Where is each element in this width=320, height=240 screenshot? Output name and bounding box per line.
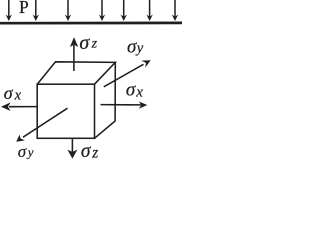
load arrow 1 bbox=[6, 0, 12, 21]
svg-text:x: x bbox=[135, 84, 143, 100]
label sigma-x left bbox=[4, 83, 22, 103]
load arrow 7 bbox=[172, 0, 178, 21]
label sigma-z top bbox=[79, 32, 97, 54]
cube front face bbox=[37, 84, 94, 138]
load arrow 2 bbox=[33, 0, 39, 21]
svg-text:σ: σ bbox=[127, 37, 137, 58]
cube right face bbox=[95, 62, 116, 138]
cube top face bbox=[37, 62, 115, 84]
ground surface line bbox=[0, 22, 182, 25]
svg-text:σ: σ bbox=[81, 141, 92, 161]
load arrow 5 bbox=[121, 0, 127, 21]
svg-text:σ: σ bbox=[18, 142, 27, 161]
load arrow 6 bbox=[146, 0, 152, 21]
sigma-x left arrow bbox=[1, 102, 37, 111]
sigma-y axis upper segment bbox=[104, 60, 151, 87]
load arrow 4 bbox=[99, 0, 105, 21]
label sigma-y top-right bbox=[127, 37, 144, 58]
sigma-z up arrow bbox=[70, 37, 78, 71]
svg-text:y: y bbox=[135, 41, 144, 57]
sigma-x right arrow bbox=[101, 102, 148, 109]
svg-text:x: x bbox=[14, 87, 22, 103]
svg-text:σ: σ bbox=[4, 83, 14, 103]
load arrow 3 bbox=[65, 0, 71, 21]
svg-text:σ: σ bbox=[126, 80, 136, 101]
label sigma-x right bbox=[126, 80, 143, 101]
svg-text:z: z bbox=[91, 37, 98, 52]
sigma-z down arrow bbox=[67, 139, 77, 159]
sigma-y axis lower segment bbox=[16, 108, 67, 142]
label sigma-z bottom bbox=[81, 141, 98, 162]
svg-text:P: P bbox=[19, 0, 29, 17]
svg-text:y: y bbox=[26, 144, 34, 159]
svg-text:σ: σ bbox=[79, 32, 90, 54]
label sigma-y bottom-left bbox=[18, 142, 34, 161]
svg-text:z: z bbox=[91, 144, 98, 161]
